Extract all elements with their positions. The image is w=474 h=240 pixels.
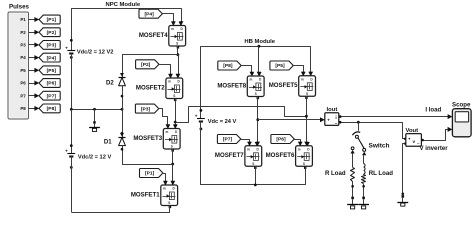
svg-text:[P1]: [P1] <box>145 171 155 177</box>
svg-text:MOSFET8: MOSFET8 <box>217 82 246 89</box>
svg-text:MOSFET1: MOSFET1 <box>131 191 160 198</box>
svg-text:m: m <box>168 80 171 84</box>
svg-text:P8: P8 <box>20 106 26 111</box>
svg-text:[P5]: [P5] <box>47 68 57 74</box>
svg-text:[P8]: [P8] <box>47 106 57 112</box>
svg-text:Vout: Vout <box>405 128 418 134</box>
svg-text:P5: P5 <box>20 68 26 73</box>
svg-text:[P4]: [P4] <box>47 55 57 61</box>
svg-text:[P7]: [P7] <box>223 137 233 143</box>
svg-text:[P8]: [P8] <box>223 63 233 69</box>
svg-text:[P5]: [P5] <box>275 63 285 69</box>
svg-text:m: m <box>165 130 168 134</box>
svg-text:Vdc/2 = 12 V: Vdc/2 = 12 V <box>78 154 112 160</box>
svg-text:Pulses: Pulses <box>9 4 30 11</box>
svg-text:MOSFET7: MOSFET7 <box>215 152 244 159</box>
svg-text:+: + <box>195 114 198 119</box>
svg-text:S: S <box>168 201 170 205</box>
svg-text:S: S <box>176 42 178 46</box>
svg-text:−: − <box>335 121 338 126</box>
svg-text:[P2]: [P2] <box>141 62 151 68</box>
svg-text:MOSFET6: MOSFET6 <box>266 152 295 159</box>
svg-text:MOSFET5: MOSFET5 <box>269 82 298 89</box>
svg-text:S: S <box>306 92 308 96</box>
svg-text:P1: P1 <box>20 17 26 22</box>
svg-text:P2: P2 <box>20 30 26 35</box>
svg-text:NPC Module: NPC Module <box>105 2 140 8</box>
svg-text:Switch: Switch <box>369 143 390 150</box>
svg-text:m: m <box>171 27 174 31</box>
svg-text:[P4]: [P4] <box>144 11 154 17</box>
svg-text:R Load: R Load <box>325 170 346 177</box>
svg-text:m: m <box>298 147 301 151</box>
svg-text:HB Module: HB Module <box>244 39 275 45</box>
svg-text:P3: P3 <box>20 42 26 47</box>
svg-text:MOSFET3: MOSFET3 <box>133 135 162 142</box>
svg-text:[P3]: [P3] <box>47 43 57 49</box>
svg-text:[P7]: [P7] <box>47 93 57 99</box>
svg-text:D1: D1 <box>104 139 112 145</box>
svg-text:MOSFET4: MOSFET4 <box>139 32 168 39</box>
svg-text:S: S <box>252 162 254 166</box>
svg-text:[P6]: [P6] <box>276 137 286 143</box>
svg-text:+: + <box>65 46 68 51</box>
svg-text:[P1]: [P1] <box>47 17 57 23</box>
svg-text:MOSFET2: MOSFET2 <box>136 84 165 91</box>
svg-text:S: S <box>171 145 173 149</box>
svg-text:P6: P6 <box>20 81 26 86</box>
svg-text:m: m <box>163 187 166 191</box>
svg-text:S: S <box>173 94 175 98</box>
svg-text:+: + <box>65 149 68 154</box>
svg-text:S: S <box>303 162 305 166</box>
svg-text:+: + <box>327 118 330 123</box>
svg-text:V inverter: V inverter <box>420 145 449 152</box>
svg-text:v: v <box>413 139 416 144</box>
svg-text:P4: P4 <box>20 55 26 60</box>
svg-text:D2: D2 <box>106 81 114 87</box>
svg-text:Iout: Iout <box>327 107 338 113</box>
svg-text:P7: P7 <box>20 93 26 98</box>
svg-text:m: m <box>249 78 252 82</box>
svg-text:Scope: Scope <box>452 101 471 108</box>
svg-text:[P2]: [P2] <box>47 30 57 36</box>
svg-text:RL Load: RL Load <box>369 170 394 177</box>
svg-text:S: S <box>255 92 257 96</box>
svg-text:m: m <box>247 147 250 151</box>
svg-text:[P6]: [P6] <box>47 81 57 87</box>
svg-text:I load: I load <box>425 107 441 114</box>
svg-text:Vdc/2 = 12 V2: Vdc/2 = 12 V2 <box>77 50 114 56</box>
svg-text:Vdc = 24 V: Vdc = 24 V <box>208 119 237 125</box>
svg-text:m: m <box>301 77 304 81</box>
svg-text:[P3]: [P3] <box>141 106 151 112</box>
